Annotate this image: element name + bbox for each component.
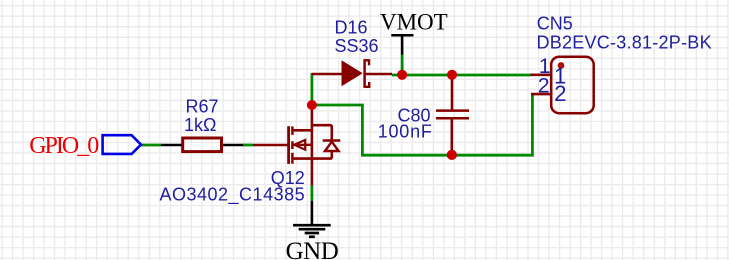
svg-text:VMOT: VMOT [380, 10, 448, 35]
svg-text:CN5: CN5 [537, 14, 573, 34]
svg-text:R67: R67 [186, 97, 219, 117]
svg-text:2: 2 [538, 75, 550, 98]
svg-text:D16: D16 [335, 17, 368, 37]
svg-text:2: 2 [554, 81, 566, 106]
svg-text:AO3402_C14385: AO3402_C14385 [160, 185, 306, 206]
svg-text:GND: GND [286, 238, 339, 260]
svg-text:DB2EVC-3.81-2P-BK: DB2EVC-3.81-2P-BK [537, 32, 712, 52]
svg-text:SS36: SS36 [335, 36, 379, 56]
svg-text:100nF: 100nF [378, 122, 433, 142]
svg-text:GPIO_0: GPIO_0 [29, 133, 99, 159]
svg-text:1kΩ: 1kΩ [184, 115, 216, 135]
